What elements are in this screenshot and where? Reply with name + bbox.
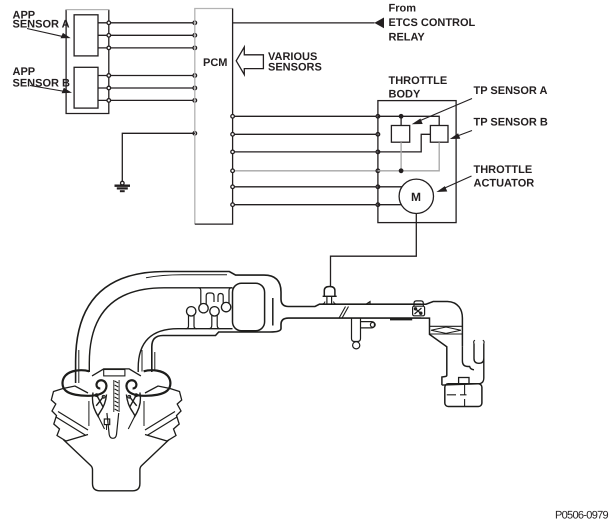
wire P4 (gray) xyxy=(233,170,378,172)
port circle 2 xyxy=(199,304,208,313)
svg-text:THROTTLE: THROTTLE xyxy=(389,75,448,87)
small fitting tick xyxy=(366,302,370,305)
wire A3 xyxy=(98,47,195,49)
svg-text:P0506-0979: P0506-0979 xyxy=(555,510,609,522)
svg-text:BODY: BODY xyxy=(389,89,421,101)
right runner bell xyxy=(126,370,170,396)
throttle mount left edge xyxy=(421,318,447,385)
right port bolt x xyxy=(129,395,136,407)
port circle 4 xyxy=(221,302,230,311)
wire from motor down xyxy=(331,214,417,288)
wire to ETCS relay xyxy=(233,22,375,24)
duct wall double-line details xyxy=(78,350,80,383)
wire P2 xyxy=(233,133,378,135)
left belt lines xyxy=(56,412,88,436)
APP sensor B inner box xyxy=(74,67,98,108)
intake duct wall C4 / bottom edge xyxy=(152,318,421,372)
engine lower block xyxy=(64,440,169,491)
label arrow TP sensor B xyxy=(450,131,472,140)
wire A2 xyxy=(98,34,195,36)
port stems xyxy=(186,288,233,329)
ground wire xyxy=(122,133,195,181)
PCM box xyxy=(195,9,233,225)
pipe joint diagonal xyxy=(339,307,349,319)
wire P5 xyxy=(233,186,378,188)
wire B3 xyxy=(98,99,195,101)
svg-text:ACTUATOR: ACTUATOR xyxy=(474,178,535,190)
label arrow APP sensor B xyxy=(30,86,72,94)
node dot wire1 xyxy=(399,114,404,119)
svg-text:THROTTLE: THROTTLE xyxy=(474,164,533,176)
canister xyxy=(445,384,482,407)
left head cover xyxy=(51,386,88,441)
wire dot to TP sensor A top xyxy=(400,116,402,125)
APP sensor A inner box xyxy=(74,15,98,56)
port circle 1 xyxy=(187,307,196,316)
intake duct outer wall C1 xyxy=(76,272,421,384)
svg-text:SENSOR A: SENSOR A xyxy=(13,19,70,31)
right head cover xyxy=(145,386,182,441)
TP sensor A box xyxy=(391,126,409,143)
center trapezoid xyxy=(92,369,141,376)
intake duct wall C2 xyxy=(89,288,232,372)
TP sensor B box xyxy=(430,126,448,143)
arrowhead from relay xyxy=(374,18,384,29)
label arrow APP sensor A xyxy=(27,29,71,39)
wire TB5 to motor xyxy=(378,186,402,188)
wire connector on pipe xyxy=(327,297,332,305)
svg-text:PCM: PCM xyxy=(203,57,227,69)
svg-text:TP SENSOR B: TP SENSOR B xyxy=(474,117,548,129)
throttle body box xyxy=(378,101,456,223)
svg-text:SENSOR B: SENSOR B xyxy=(13,78,71,90)
throttle bore slot xyxy=(272,298,274,326)
right belt lines xyxy=(145,412,177,436)
wire TB1 to TP sensor B top xyxy=(378,116,439,125)
throttle actuator motor circle xyxy=(399,179,433,213)
coupling hatch xyxy=(430,326,463,334)
throttle housing chamber xyxy=(233,283,265,331)
terminal circles APP box xyxy=(107,21,111,102)
wire B1 xyxy=(98,75,195,77)
right port funnel xyxy=(134,393,140,418)
svg-text:TP SENSOR A: TP SENSOR A xyxy=(474,85,548,97)
node dot wire4 xyxy=(399,168,404,173)
left port bolt x xyxy=(96,395,103,407)
wire B2 xyxy=(98,87,195,89)
rocker stick lines xyxy=(89,401,144,426)
wire P3 xyxy=(233,151,378,153)
left runner bell xyxy=(63,370,107,396)
left port funnel xyxy=(93,393,99,418)
throttle mount elbow top xyxy=(421,302,462,347)
svg-text:From: From xyxy=(389,3,417,15)
ground xyxy=(115,181,131,191)
wire A1 xyxy=(98,22,195,24)
clamp on pipe xyxy=(413,301,425,316)
center V notch xyxy=(107,413,119,438)
terminal circles throttle body left xyxy=(376,115,380,207)
wire P1 xyxy=(233,115,378,117)
port circle 3 xyxy=(210,307,219,316)
svg-text:RELAY: RELAY xyxy=(389,32,426,44)
intake duct wall C3 xyxy=(138,329,232,372)
wire TB3 up to TP sensor B left xyxy=(378,134,431,152)
svg-text:SENSORS: SENSORS xyxy=(268,62,322,74)
label arrow TP sensor A xyxy=(412,99,472,125)
wire4 inside TB to TP sensor B bottom (gray) xyxy=(378,142,439,171)
svg-text:ETCS CONTROL: ETCS CONTROL xyxy=(389,17,476,29)
terminal circles PCM left xyxy=(193,21,197,135)
label arrow throttle actuator xyxy=(436,176,471,192)
VARIOUS SENSORS block arrow xyxy=(236,47,263,75)
svg-text:M: M xyxy=(411,190,421,204)
APP connector outer box xyxy=(66,10,109,114)
svg-text:APP: APP xyxy=(13,66,36,78)
wire TP sensor A bottom to wire4 (gray) xyxy=(400,142,402,171)
wire P6 xyxy=(233,204,378,206)
fork bracket xyxy=(462,346,474,370)
wire TB6 to motor xyxy=(378,204,402,206)
center hatch strip xyxy=(115,381,119,411)
terminal circles PCM right xyxy=(231,115,235,207)
pipe thick joint xyxy=(390,318,412,321)
bracket under pipe xyxy=(352,318,376,349)
